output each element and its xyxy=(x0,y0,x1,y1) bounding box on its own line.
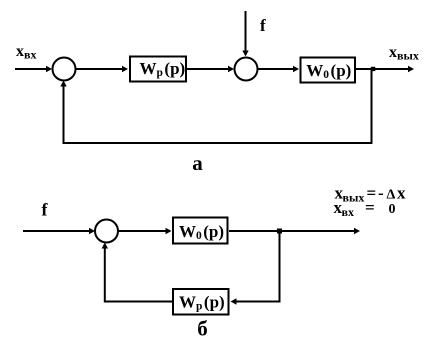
wire Wp(p) to summing junction S2 xyxy=(187,66,234,72)
wire S3 to block W0(p) (diagram b) xyxy=(118,228,172,234)
block Wp(p) regulator (diagram a) xyxy=(130,57,186,82)
block W0(p) plant (diagram a) xyxy=(301,58,356,83)
label f (diagram a) xyxy=(260,16,266,35)
junction node on output (diagram b) xyxy=(277,229,282,234)
wire S1 to block Wp(p) xyxy=(76,66,129,72)
block Wp(p) regulator (diagram b) xyxy=(173,289,229,315)
wire f input arrow into summing junction S3 xyxy=(23,228,95,234)
summing junction S1 xyxy=(53,58,76,81)
svg-text:а: а xyxy=(192,151,203,175)
label x_vx input (diagram a) xyxy=(16,43,36,62)
wire Wp(p) output up into S3 (diagram b) xyxy=(102,243,173,302)
summing junction S3 xyxy=(95,220,118,243)
wire W0(p) to output (diagram b) xyxy=(229,228,360,234)
label f (diagram b) xyxy=(42,200,49,220)
label a (diagram a caption) xyxy=(192,151,203,175)
wire output junction down to Wp(p) input (diagram b) xyxy=(231,231,280,305)
wire S2 to block W0(p) xyxy=(258,66,300,72)
block W0(p) plant (diagram b) xyxy=(173,218,228,244)
label x_vyx output (diagram a) xyxy=(389,44,419,63)
equation x_vx = 0 xyxy=(334,198,396,219)
wire W0(p) to output x_vyx xyxy=(355,66,414,72)
equation x_vyx = -delta x xyxy=(335,184,407,205)
summing junction S2 xyxy=(235,58,258,81)
wire feedback loop (diagram a) xyxy=(60,69,371,143)
svg-text:f: f xyxy=(260,16,266,35)
label b (diagram b caption) xyxy=(197,317,208,341)
wire input arrow into summing junction S1 xyxy=(15,66,52,72)
wire f disturbance arrow into S2 xyxy=(242,11,248,57)
svg-text:f: f xyxy=(42,200,49,220)
svg-text:б: б xyxy=(197,317,208,341)
junction node on output (diagram a) xyxy=(371,67,376,71)
